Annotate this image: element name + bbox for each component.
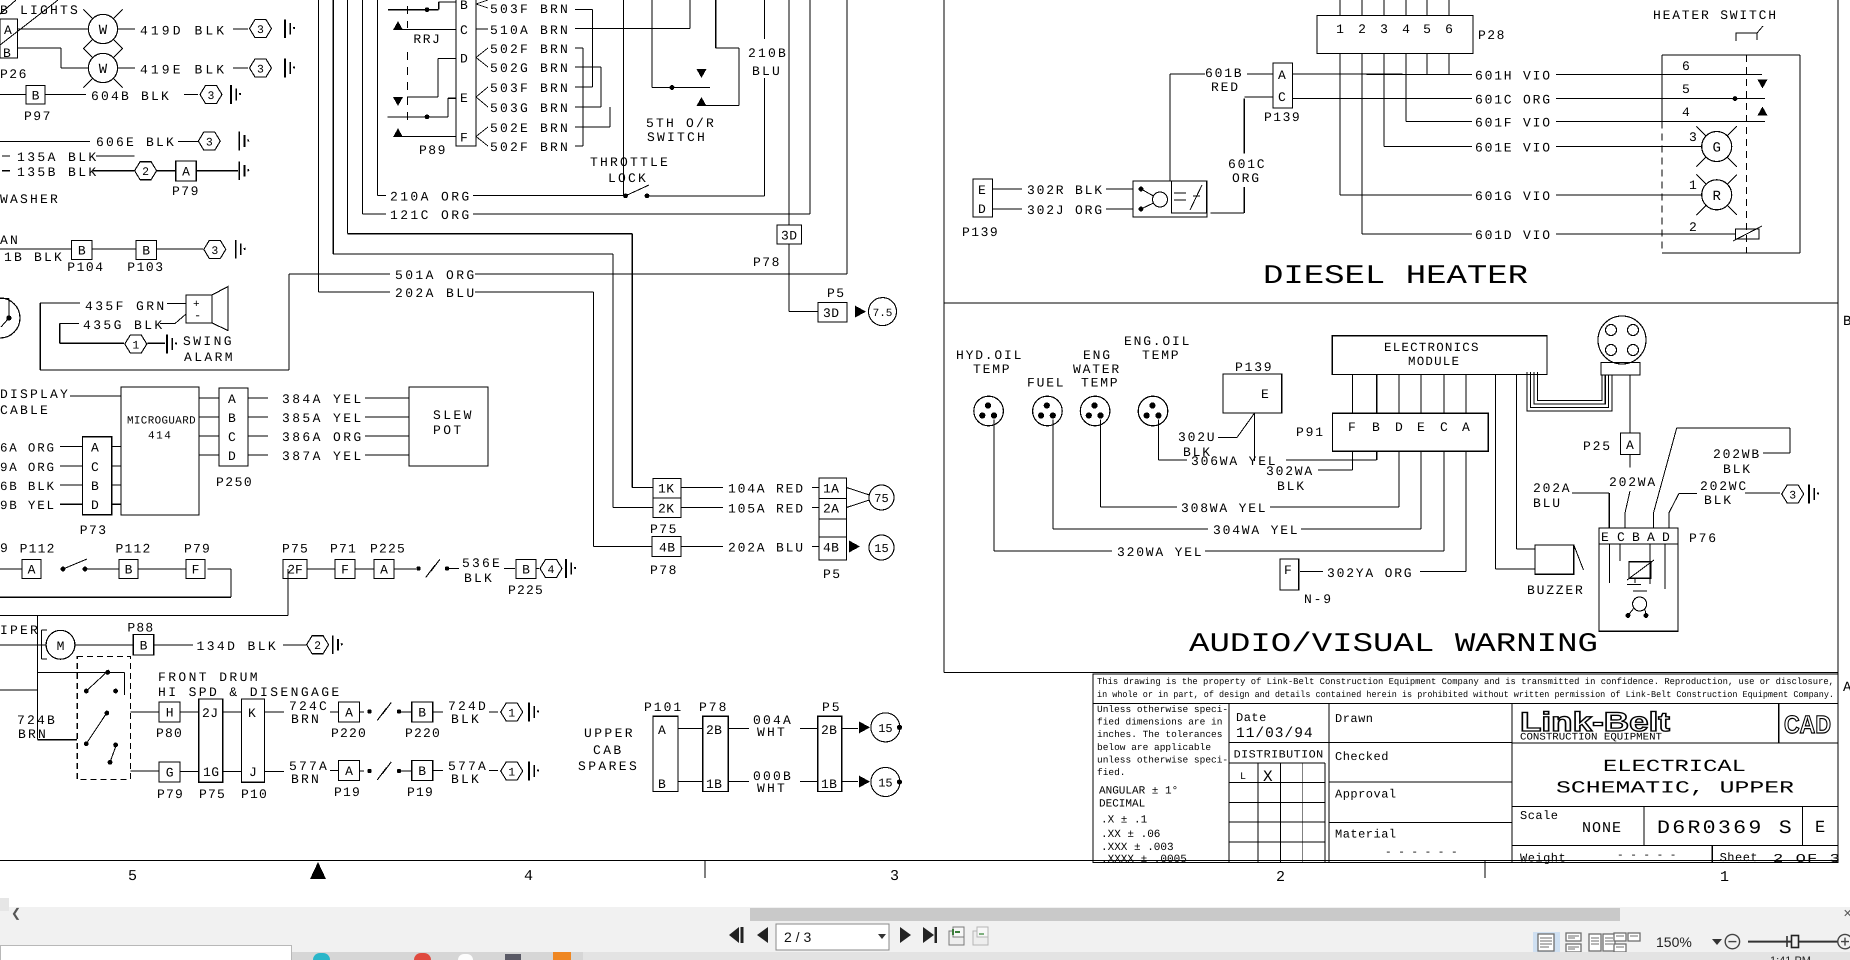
- svg-text:A: A: [380, 563, 388, 578]
- svg-text:N-9: N-9: [1304, 592, 1333, 607]
- lamp W2: [18, 47, 62, 49]
- svg-text:P25: P25: [1583, 439, 1612, 454]
- svg-text:ORG: ORG: [1232, 171, 1261, 186]
- svg-text:601H VIO: 601H VIO: [1475, 69, 1552, 84]
- svg-text:302YA ORG: 302YA ORG: [1327, 566, 1413, 581]
- svg-text:P103: P103: [127, 260, 164, 275]
- wire 419D BLK: [118, 28, 135, 30]
- wire 601H VIO: [1293, 73, 1472, 76]
- svg-text:.XXX ± .003: .XXX ± .003: [1101, 842, 1174, 854]
- svg-text:P78: P78: [699, 700, 728, 715]
- buzzer: [1515, 374, 1517, 549]
- svg-text:E: E: [1417, 420, 1425, 435]
- wire 501A ORG: [289, 273, 390, 275]
- svg-text:B: B: [32, 88, 40, 103]
- svg-text:P101: P101: [644, 700, 683, 715]
- svg-text:1: 1: [508, 767, 515, 780]
- svg-text:9A ORG: 9A ORG: [0, 461, 56, 475]
- svg-text:CONSTRUCTION EQUIPMENT: CONSTRUCTION EQUIPMENT: [1520, 733, 1662, 744]
- svg-text:RED: RED: [1211, 80, 1240, 95]
- svg-text:3: 3: [1789, 490, 1796, 503]
- svg-text:5: 5: [128, 868, 137, 885]
- svg-text:501A ORG: 501A ORG: [395, 268, 477, 283]
- svg-text:3: 3: [211, 245, 218, 258]
- svg-text:A: A: [28, 563, 36, 578]
- svg-text:P19: P19: [407, 785, 434, 800]
- title block frame: [1093, 704, 1838, 863]
- svg-text:510A BRN: 510A BRN: [490, 23, 570, 38]
- svg-text:D: D: [1395, 420, 1403, 435]
- svg-text:601C ORG: 601C ORG: [1475, 93, 1552, 108]
- drawn cells: [1329, 742, 1512, 744]
- svg-text:P139: P139: [962, 225, 999, 240]
- svg-text:H: H: [166, 706, 174, 721]
- svg-text:D: D: [91, 498, 99, 513]
- svg-text:F: F: [1284, 563, 1292, 578]
- svg-text:3: 3: [257, 24, 264, 37]
- svg-text:B: B: [140, 638, 148, 653]
- svg-text:2J: 2J: [202, 706, 219, 721]
- svg-text:A: A: [345, 706, 353, 721]
- wire into drum switch: [38, 671, 125, 673]
- svg-text:P79: P79: [172, 184, 200, 199]
- svg-text:135B BLK: 135B BLK: [17, 165, 99, 180]
- svg-text:7.5: 7.5: [873, 308, 893, 320]
- round connector 4pin: [1598, 316, 1646, 364]
- svg-text:P28: P28: [1478, 28, 1506, 43]
- svg-text:Sheet: Sheet: [1720, 851, 1759, 865]
- svg-text:B: B: [1632, 530, 1640, 545]
- svg-text:386A ORG: 386A ORG: [282, 430, 364, 445]
- wire 135B BLK: [2, 170, 10, 172]
- svg-text:B: B: [125, 563, 133, 578]
- svg-text:D: D: [1662, 530, 1670, 545]
- svg-text:CAD: CAD: [1784, 711, 1831, 739]
- svg-text:A: A: [1626, 438, 1634, 453]
- svg-text:SWITCH: SWITCH: [647, 130, 707, 145]
- wire 105A RED: [681, 507, 723, 509]
- svg-text:601C: 601C: [1228, 157, 1266, 172]
- svg-text:A: A: [658, 723, 666, 738]
- svg-text:C: C: [1278, 90, 1286, 105]
- svg-text:B: B: [3, 46, 11, 61]
- svg-text:WHT: WHT: [757, 725, 787, 740]
- svg-text:ENG: ENG: [1083, 348, 1112, 363]
- svg-text:2 OF 3: 2 OF 3: [1773, 852, 1841, 866]
- svg-text:502F BRN: 502F BRN: [490, 140, 570, 155]
- svg-text:419D BLK: 419D BLK: [140, 24, 227, 39]
- microguard 414: [121, 387, 199, 515]
- svg-text:P104: P104: [67, 260, 104, 275]
- svg-text:601B: 601B: [1205, 66, 1243, 81]
- wire 135A BLK: [2, 155, 10, 157]
- svg-text:503F BRN: 503F BRN: [490, 81, 570, 96]
- svg-text:E: E: [460, 91, 468, 106]
- svg-text:MICROGUARD: MICROGUARD: [127, 416, 196, 428]
- svg-text:fied dimensions are in: fied dimensions are in: [1097, 717, 1222, 728]
- svg-text:F: F: [341, 563, 349, 578]
- svg-text:C: C: [460, 23, 468, 38]
- svg-text:5: 5: [1682, 82, 1690, 97]
- wire 104A RED: [681, 487, 723, 489]
- svg-text:9B YEL: 9B YEL: [0, 499, 56, 513]
- svg-text:P88: P88: [127, 621, 154, 636]
- svg-text:BLK: BLK: [464, 571, 494, 586]
- svg-text:ENG.OIL: ENG.OIL: [1124, 334, 1191, 349]
- svg-text:G: G: [1712, 141, 1720, 157]
- svg-text:POT: POT: [433, 423, 464, 438]
- svg-text:1: 1: [1336, 22, 1344, 37]
- svg-text:BLK: BLK: [451, 712, 481, 727]
- svg-text:384A YEL: 384A YEL: [282, 392, 364, 407]
- svg-text:150%: 150%: [1656, 934, 1692, 950]
- svg-text:502E BRN: 502E BRN: [490, 121, 570, 136]
- svg-text:DISPLAY: DISPLAY: [0, 387, 70, 402]
- svg-text:C: C: [228, 430, 236, 445]
- svg-text:3D: 3D: [781, 229, 798, 244]
- wire 104A riser: [347, 0, 349, 234]
- svg-text:2: 2: [1689, 220, 1697, 235]
- svg-text:536E: 536E: [462, 556, 502, 571]
- connector N-9 F: [1280, 559, 1299, 590]
- svg-text:L: L: [1240, 772, 1246, 783]
- svg-text:502G BRN: 502G BRN: [490, 61, 570, 76]
- svg-text:320WA YEL: 320WA YEL: [1117, 545, 1203, 560]
- svg-text:3: 3: [257, 64, 264, 77]
- wire elbows right of labels: [575, 9, 593, 11]
- svg-text:1A: 1A: [823, 482, 839, 497]
- svg-text:503F BRN: 503F BRN: [490, 2, 570, 17]
- svg-text:Approval: Approval: [1335, 788, 1397, 802]
- svg-text:D: D: [228, 449, 236, 464]
- svg-text:A: A: [1647, 530, 1655, 545]
- fuse 15 mid: [849, 541, 860, 553]
- svg-text:LOCK: LOCK: [608, 171, 648, 186]
- svg-text:P5: P5: [822, 700, 842, 715]
- svg-text:414: 414: [148, 431, 172, 443]
- wire net to 501A: [40, 369, 289, 371]
- wire 601C ORG row: [1292, 98, 1472, 100]
- svg-text:15: 15: [874, 542, 888, 556]
- svg-text:4: 4: [548, 564, 555, 577]
- wire 202WA: [1629, 454, 1631, 467]
- svg-text:C: C: [1440, 420, 1448, 435]
- svg-text:ELECTRONICS: ELECTRONICS: [1384, 341, 1480, 355]
- wire 2F feed: [287, 569, 289, 616]
- svg-text:.XXXX ± .0005: .XXXX ± .0005: [1101, 854, 1187, 866]
- svg-text:P76: P76: [1689, 531, 1718, 546]
- svg-text:6A ORG: 6A ORG: [0, 441, 56, 455]
- svg-text:unless otherwise speci-: unless otherwise speci-: [1097, 754, 1228, 765]
- connector P5: [819, 478, 847, 560]
- svg-text:121C ORG: 121C ORG: [390, 208, 472, 223]
- svg-text:210A ORG: 210A ORG: [390, 190, 472, 205]
- resistor heater: [1736, 229, 1759, 239]
- svg-text:CABLE: CABLE: [0, 403, 50, 418]
- svg-text:6: 6: [1445, 22, 1453, 37]
- svg-text:601G VIO: 601G VIO: [1475, 189, 1552, 204]
- P76 switch assembly: [1599, 544, 1678, 631]
- svg-text:3: 3: [208, 90, 215, 103]
- svg-text:B: B: [418, 764, 426, 779]
- svg-text:G: G: [166, 766, 174, 781]
- svg-text:RRJ: RRJ: [413, 32, 441, 47]
- svg-text:HEATER SWITCH: HEATER SWITCH: [1653, 8, 1778, 23]
- svg-text:A: A: [228, 392, 236, 407]
- svg-text:2A: 2A: [823, 502, 839, 517]
- svg-text:104A RED: 104A RED: [728, 482, 805, 497]
- svg-text:601D VIO: 601D VIO: [1475, 228, 1552, 243]
- svg-text:P19: P19: [334, 785, 361, 800]
- wire 302WA BLK: [1254, 413, 1256, 461]
- svg-text:11/03/94: 11/03/94: [1236, 726, 1314, 742]
- svg-text:5: 5: [1423, 22, 1431, 37]
- svg-text:P73: P73: [80, 523, 108, 538]
- svg-text:BLK: BLK: [451, 772, 481, 787]
- svg-text:P112: P112: [116, 542, 152, 557]
- svg-text:4: 4: [524, 868, 533, 885]
- svg-text:3D: 3D: [823, 306, 840, 321]
- svg-text:15: 15: [878, 777, 892, 791]
- svg-text:BLU: BLU: [752, 64, 782, 79]
- svg-text:503G BRN: 503G BRN: [490, 101, 570, 116]
- fuse 15 bottom: [842, 781, 858, 783]
- svg-text:TEMP: TEMP: [1142, 348, 1180, 363]
- svg-text:M: M: [57, 639, 65, 654]
- svg-text:DECIMAL: DECIMAL: [1099, 798, 1145, 810]
- svg-text:75: 75: [874, 492, 888, 506]
- wire 1B BLK / P104 / P103: [0, 248, 72, 250]
- connector P78 3D tag: [788, 0, 790, 225]
- connector P97: [0, 94, 26, 96]
- svg-text:1K: 1K: [658, 482, 675, 497]
- wire 105A riser: [332, 0, 334, 254]
- svg-text:.X ± .1: .X ± .1: [1101, 814, 1148, 826]
- svg-text:- - - - - -: - - - - - -: [1385, 847, 1458, 859]
- svg-text:9: 9: [0, 541, 8, 556]
- wire 724B BRN: [0, 689, 38, 691]
- connector P78 4B: [594, 546, 652, 548]
- svg-text:F: F: [460, 131, 468, 146]
- date cell: [1229, 742, 1329, 744]
- svg-text:308WA YEL: 308WA YEL: [1181, 501, 1267, 516]
- svg-text:B: B: [460, 0, 468, 13]
- title block disclaimer: [1093, 674, 1838, 704]
- svg-text:Checked: Checked: [1335, 750, 1389, 764]
- svg-text:ELECTRICAL: ELECTRICAL: [1603, 758, 1746, 777]
- svg-text:Weight: Weight: [1520, 852, 1566, 866]
- svg-text:4: 4: [1682, 105, 1690, 120]
- wire 004A WHT: [728, 727, 749, 729]
- svg-text:D: D: [978, 202, 986, 217]
- fuse 75: [847, 488, 870, 496]
- svg-text:B: B: [1843, 314, 1850, 330]
- svg-text:P75: P75: [650, 522, 678, 537]
- svg-text:P75: P75: [199, 787, 226, 802]
- svg-text:P26: P26: [0, 67, 28, 82]
- svg-text:2 / 3: 2 / 3: [784, 929, 811, 945]
- svg-text:A: A: [1462, 420, 1470, 435]
- svg-text:Drawn: Drawn: [1335, 712, 1374, 726]
- svg-text:B: B: [142, 244, 150, 259]
- svg-text:TEMP: TEMP: [1081, 376, 1119, 391]
- svg-text:BUZZER: BUZZER: [1527, 583, 1585, 598]
- svg-text:AUDIO/VISUAL WARNING: AUDIO/VISUAL WARNING: [1189, 630, 1598, 660]
- svg-text:P80: P80: [156, 726, 183, 741]
- connector P89: [456, 0, 476, 146]
- wire: [943, 0, 945, 673]
- svg-text:P75: P75: [282, 542, 309, 557]
- svg-text:B: B: [78, 244, 86, 259]
- wire 302R BLK: [993, 188, 1023, 190]
- wire 510A riser: [575, 27, 690, 29]
- svg-text:P78: P78: [753, 255, 781, 270]
- svg-text:NONE: NONE: [1582, 820, 1622, 837]
- svg-text:C: C: [91, 460, 99, 475]
- connector P73: [83, 437, 112, 515]
- svg-text:AN: AN: [0, 233, 20, 248]
- wire 320WA YEL: [993, 420, 995, 551]
- svg-text:P139: P139: [1235, 360, 1273, 375]
- svg-text:2: 2: [314, 640, 321, 653]
- svg-text:B: B: [228, 411, 236, 426]
- svg-text:X: X: [1263, 768, 1273, 786]
- svg-text:BLK: BLK: [1723, 462, 1752, 477]
- svg-text:P220: P220: [331, 726, 367, 741]
- svg-text:P5: P5: [823, 567, 842, 582]
- svg-text:304WA YEL: 304WA YEL: [1213, 523, 1299, 538]
- svg-text:202WC: 202WC: [1700, 479, 1748, 494]
- svg-text:6B BLK: 6B BLK: [0, 480, 56, 494]
- connector P75 1K/2K: [632, 487, 653, 489]
- svg-text:1: 1: [508, 708, 515, 721]
- wire 308WA YEL: [1100, 420, 1102, 507]
- toolbar page nav: [0, 907, 1850, 953]
- svg-text:C: C: [1617, 530, 1625, 545]
- svg-text:P250: P250: [216, 475, 253, 490]
- svg-text:385A YEL: 385A YEL: [282, 411, 364, 426]
- svg-text:WASHER: WASHER: [0, 192, 60, 207]
- svg-text:UPPER: UPPER: [584, 726, 635, 741]
- svg-text:P71: P71: [330, 542, 357, 557]
- svg-text:601E VIO: 601E VIO: [1475, 141, 1552, 156]
- wire 202A BLU: [317, 0, 319, 292]
- svg-text:435F GRN: 435F GRN: [85, 299, 167, 314]
- svg-text:B: B: [658, 777, 666, 792]
- wire 601B RED: [1170, 73, 1205, 75]
- svg-text:DIESEL HEATER: DIESEL HEATER: [1263, 262, 1528, 292]
- svg-text:105A RED: 105A RED: [728, 502, 805, 517]
- lamp G: [1702, 132, 1732, 162]
- svg-text:.XX ± .06: .XX ± .06: [1101, 829, 1160, 841]
- svg-text:F: F: [1348, 420, 1356, 435]
- svg-text:1G: 1G: [203, 765, 220, 780]
- svg-text:inches. The tolerances: inches. The tolerances: [1097, 729, 1222, 740]
- svg-text:B: B: [91, 479, 99, 494]
- svg-text:Unless otherwise speci-: Unless otherwise speci-: [1097, 704, 1228, 715]
- svg-text:601F VIO: 601F VIO: [1475, 116, 1552, 131]
- wire 601E VIO: [1384, 146, 1472, 148]
- wire 601C ORG riser: [1291, 98, 1293, 100]
- svg-text:BLK: BLK: [1277, 479, 1306, 494]
- 5th O/R switch: [651, 0, 653, 88]
- svg-text:P220: P220: [405, 726, 441, 741]
- wire 202WB BLK: [1653, 513, 1655, 529]
- svg-text:below are applicable: below are applicable: [1097, 742, 1211, 753]
- svg-text:✕: ✕: [1843, 908, 1850, 920]
- connector P26: [0, 19, 18, 58]
- svg-text:2: 2: [1358, 22, 1366, 37]
- lamp R: [1702, 180, 1732, 210]
- svg-text:6: 6: [1682, 59, 1690, 74]
- svg-text:ANGULAR ± 1°: ANGULAR ± 1°: [1099, 786, 1178, 798]
- svg-text:2: 2: [142, 166, 149, 179]
- svg-text:P78: P78: [650, 563, 678, 578]
- connector P139 E/D: [973, 179, 993, 217]
- lamp W1: [18, 28, 89, 30]
- svg-text:B: B: [418, 706, 426, 721]
- svg-text:P112: P112: [20, 542, 56, 557]
- svg-text:B: B: [522, 563, 530, 578]
- wire 304WA YEL: [1052, 420, 1054, 529]
- svg-text:1: 1: [132, 340, 139, 353]
- svg-text:4B: 4B: [659, 541, 676, 556]
- svg-text:A: A: [345, 764, 353, 779]
- svg-text:SPARES: SPARES: [578, 759, 639, 774]
- connector P28: [1317, 16, 1473, 54]
- svg-text:1: 1: [1689, 178, 1697, 193]
- svg-text:4: 4: [1402, 22, 1410, 37]
- slew pot: [409, 387, 488, 466]
- svg-text:3: 3: [890, 868, 899, 885]
- wire 606E BLK: [0, 140, 90, 142]
- svg-text:A: A: [182, 165, 190, 180]
- connector P25 A: [1629, 375, 1631, 433]
- svg-text:A: A: [91, 440, 99, 455]
- relay flame detector: [1133, 181, 1207, 217]
- svg-text:3: 3: [1380, 22, 1388, 37]
- svg-text:MODULE: MODULE: [1408, 355, 1460, 369]
- svg-text:502F BRN: 502F BRN: [490, 42, 570, 57]
- svg-text:2F: 2F: [287, 563, 303, 578]
- svg-text:E: E: [1815, 819, 1825, 838]
- svg-text:CAB: CAB: [593, 743, 624, 758]
- svg-text:Date: Date: [1236, 711, 1267, 725]
- wire 577A row: [131, 770, 159, 772]
- connector P80 H: [131, 711, 159, 713]
- svg-text:This drawing is the property o: This drawing is the property of Link-Bel…: [1097, 677, 1834, 687]
- svg-text:P139: P139: [1264, 110, 1301, 125]
- svg-text:P5: P5: [827, 286, 846, 301]
- wire 601G VIO: [1340, 194, 1472, 196]
- svg-text:E: E: [1601, 530, 1609, 545]
- svg-text:BRN: BRN: [291, 712, 321, 727]
- svg-text:BLK: BLK: [1704, 493, 1733, 508]
- svg-text:A: A: [4, 23, 12, 38]
- transistor symbol (clipped): [0, 298, 20, 338]
- svg-text:BLU: BLU: [1533, 496, 1562, 511]
- svg-text:ALARM: ALARM: [184, 350, 235, 365]
- connector P79: [176, 161, 197, 181]
- svg-text:1B BLK: 1B BLK: [4, 250, 64, 265]
- pdf viewer scrollbar and toolbar: [0, 907, 1850, 953]
- svg-text:202A: 202A: [1533, 481, 1571, 496]
- svg-text:Material: Material: [1335, 828, 1397, 842]
- wire 601D VIO: [1362, 233, 1472, 235]
- wire 210A ORG: [376, 0, 378, 196]
- electronics module: [1332, 336, 1547, 375]
- svg-text:A: A: [1278, 68, 1286, 83]
